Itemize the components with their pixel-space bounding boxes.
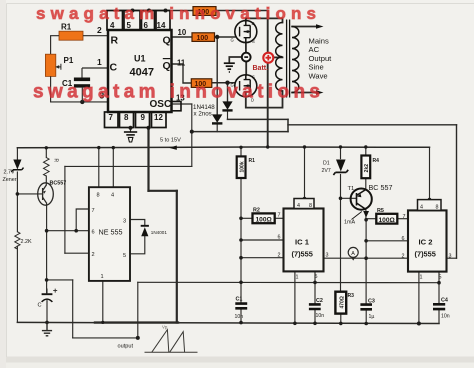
diode 1N4148 a	[212, 114, 222, 122]
svg-text:2.7V: 2.7V	[4, 170, 15, 176]
svg-text:NE 555: NE 555	[99, 228, 123, 237]
svg-text:1mA: 1mA	[344, 220, 355, 226]
svg-text:C: C	[110, 62, 118, 74]
svg-text:P1: P1	[64, 56, 74, 65]
capacitor C polarized	[42, 293, 53, 295]
svg-text:2: 2	[92, 252, 95, 258]
wire main rail 5to15V	[17, 146, 429, 149]
wire top supply bus from U1 pins 4,5,6,14 to 100ohm resistor	[115, 10, 193, 12]
svg-text:R3: R3	[348, 293, 355, 299]
wire transformer secondary bottom lead with arrow	[292, 92, 318, 94]
node dot bus pin5	[131, 9, 135, 13]
svg-text:D1: D1	[323, 161, 330, 167]
svg-text:S: S	[252, 75, 255, 80]
svg-text:3: 3	[449, 253, 452, 259]
wire P1 bottom to U1 pin3	[51, 76, 108, 102]
svg-text:10n: 10n	[316, 313, 325, 319]
transistor T1 BC557 circle	[351, 189, 372, 210]
wire diode D_a cathode down	[216, 123, 218, 131]
svg-text:5: 5	[123, 253, 126, 259]
wire 100ohm to gate of top mosfet	[215, 36, 235, 38]
wire IC1 riser pins 4,8	[304, 147, 306, 199]
svg-text:100Ω: 100Ω	[256, 217, 273, 224]
potentiometer P1 (orange)	[45, 54, 55, 76]
wire R1 100k bottom to node	[240, 178, 242, 282]
wire horizontal y166 to NE555 pin2 riser	[65, 165, 192, 167]
capacitor C1 bottom	[235, 304, 247, 309]
svg-text:A: A	[351, 251, 355, 257]
node dot rail NE555 pin8	[97, 146, 100, 149]
wire control line y282 to IC2 pin5	[138, 281, 439, 283]
node dot control line C2	[313, 281, 317, 285]
wire diode cathode line y131.6 to jog	[192, 131, 288, 133]
wire collector node to output drop	[47, 279, 73, 281]
svg-text:R2: R2	[253, 208, 260, 214]
svg-text:C1: C1	[236, 297, 243, 303]
current arrow 1mA	[363, 211, 369, 218]
transformer secondary winding	[292, 27, 299, 93]
svg-text:R1: R1	[61, 23, 72, 32]
arrow secondary top	[316, 24, 324, 28]
wire transformer secondary top lead with arrow	[292, 26, 318, 28]
node dot pin6 node	[239, 238, 243, 242]
node dot pin2 line crossing	[364, 256, 368, 260]
svg-text:2k2: 2k2	[364, 164, 370, 173]
node dot collector output branch	[45, 278, 49, 282]
svg-text:4: 4	[420, 204, 423, 210]
node dot BC557 collector pin6	[45, 229, 49, 233]
node dot output	[136, 336, 140, 340]
wire U1 pin11 Qbar to 100ohm	[172, 64, 192, 83]
svg-text:Zener: Zener	[3, 177, 17, 183]
wire C3 to ground bus	[365, 311, 367, 324]
wire node to IC1 pin2	[241, 257, 284, 259]
potentiometer P1 wiper arrow	[58, 64, 61, 70]
svg-text:S: S	[252, 39, 255, 44]
IC U1 4047 box	[108, 30, 172, 112]
wire R4 top from rail	[365, 147, 367, 156]
wire pin13 vertical down crossing rail	[191, 104, 193, 166]
svg-text:7: 7	[109, 113, 114, 122]
wire R zigzag top from rail	[45, 148, 47, 158]
wire R2 to IC1 pin7	[275, 217, 284, 219]
svg-text:6: 6	[92, 230, 95, 236]
wire node pin11 down to diode D_b anode	[227, 83, 229, 102]
svg-text:6: 6	[278, 235, 281, 241]
svg-text:7: 7	[403, 214, 406, 220]
svg-text:5: 5	[315, 274, 318, 280]
svg-text:8: 8	[436, 204, 439, 210]
wire NE555 pin3 to 1N4001	[130, 220, 145, 226]
wire battery plus to transformer center tap	[273, 56, 283, 58]
wire NE555 pin2 riser vertical	[64, 166, 66, 253]
wire capacitor C stem to ground bus	[46, 302, 48, 323]
svg-text:Wave: Wave	[309, 71, 328, 80]
ground under U1 pins 7,8	[124, 132, 137, 142]
wire zener to base node	[16, 172, 18, 232]
svg-text:IC 2: IC 2	[419, 238, 433, 247]
wire R1 left to P1 top	[51, 36, 59, 55]
svg-text:8: 8	[309, 203, 312, 209]
diode 1N4001	[141, 227, 148, 236]
svg-text:470Ω: 470Ω	[339, 296, 345, 308]
capacitor C2	[309, 304, 321, 309]
node dot C3 ground bus	[364, 322, 368, 326]
wire top bus from 100ohm to battery positive rail	[216, 10, 268, 12]
transistor BC557 left circle	[38, 183, 54, 205]
wire right side vertical down to IC2 pin3	[456, 125, 458, 258]
node dot rail IC1 riser	[303, 145, 306, 148]
wire NE555 pin6 to collector node	[47, 230, 89, 232]
meter A test point	[348, 247, 358, 257]
node dot NE555 pin7 bracket	[74, 229, 78, 233]
resistor R zigzag	[44, 158, 50, 177]
node dot pin13 line joins diode line	[190, 130, 194, 134]
node dot rail D1	[339, 145, 342, 148]
wire C4 to ground bus corner	[438, 311, 440, 324]
svg-text:100Ω: 100Ω	[379, 217, 396, 224]
capacitor C3	[360, 305, 372, 310]
svg-text:R: R	[111, 35, 119, 47]
wire R1 100k top from rail	[240, 147, 242, 156]
wire thick net from U1 pins 9,12 down	[147, 128, 149, 191]
svg-text:1: 1	[420, 275, 423, 281]
svg-text:8: 8	[97, 193, 100, 199]
wire NE555 pin7 bracket	[76, 209, 89, 231]
svg-text:4: 4	[111, 193, 114, 199]
zener diode D1 2V7	[336, 160, 346, 172]
wire IC2 pin5 down	[438, 272, 440, 283]
svg-text:Mains: Mains	[309, 37, 329, 46]
node dot capacitor C ground	[45, 321, 49, 325]
wire node to IC2 pin6	[366, 240, 408, 242]
svg-text:11: 11	[177, 59, 186, 68]
svg-text:R5: R5	[377, 208, 384, 214]
wire rail right drop to IC2 pins 4,8	[429, 147, 431, 199]
wire battery positive rail vertical	[267, 11, 269, 148]
svg-text:10: 10	[178, 28, 187, 37]
output waveform triangle ramps	[145, 330, 198, 353]
mosfet Q-top internals	[240, 21, 251, 43]
svg-text:(7)555: (7)555	[292, 250, 313, 259]
node dot zener base node	[16, 192, 20, 196]
svg-text:R4: R4	[373, 158, 380, 164]
svg-text:R1: R1	[249, 158, 256, 164]
wire thick net down to ground bus	[176, 191, 178, 323]
svg-text:10n: 10n	[235, 314, 244, 320]
capacitor C1 (thick plates)	[74, 78, 90, 82]
node dot C1 ground bus	[239, 321, 243, 325]
node dot R2 node	[239, 217, 243, 221]
mosfet Q-bottom internals	[240, 75, 251, 97]
wire output horizontal to output dot	[73, 337, 138, 339]
svg-text:R: R	[53, 159, 59, 163]
wire NE555 pin8 riser to rail	[98, 148, 100, 188]
wire node to R5	[366, 218, 376, 220]
wire thick net jog right	[149, 190, 177, 192]
node dot T1 base	[339, 197, 343, 201]
wire C1 top to pin1 line	[82, 68, 108, 102]
wire diode D_b cathode down	[227, 110, 229, 119]
wire U1 pin2 from R1	[83, 35, 108, 37]
svg-text:7: 7	[92, 208, 95, 214]
battery minus terminal	[242, 53, 251, 62]
wire node pin10 down to diode D_a anode	[216, 37, 218, 115]
svg-text:C3: C3	[368, 299, 375, 305]
svg-text:4: 4	[297, 203, 300, 209]
transistor T1 internals	[357, 190, 366, 210]
resistor 2.2K zigzag	[15, 232, 20, 249]
resistor R5 100ohm (white)	[376, 214, 397, 224]
svg-text:2.2K: 2.2K	[21, 239, 32, 245]
svg-text:G: G	[231, 38, 234, 43]
svg-text:8: 8	[124, 113, 129, 122]
svg-text:1: 1	[296, 275, 299, 281]
wire rail left drop / zener branch top	[16, 148, 18, 160]
svg-text:Sine: Sine	[309, 63, 324, 72]
svg-text:12: 12	[154, 113, 163, 122]
node dot U1 pins 7,8 ground	[128, 126, 132, 130]
wire battery minus to chassis ground	[229, 57, 243, 63]
wire output node up to control line	[137, 282, 139, 338]
svg-text:3: 3	[326, 253, 329, 259]
capacitor C4	[433, 304, 445, 309]
wire U1 pin10 Q to 100ohm	[172, 36, 193, 38]
wire top mosfet source to battery minus	[245, 43, 247, 54]
resistor R1 100k vertical (white)	[237, 156, 246, 178]
ground under capacitor C	[42, 322, 52, 335]
wire bottom mosfet drain to transformer primary bottom	[246, 91, 283, 108]
svg-text:BC557: BC557	[50, 181, 67, 187]
wire IC1 pin1 to ground bus	[294, 271, 296, 323]
node dot pin11 branch	[225, 81, 229, 85]
wire T1 base	[341, 197, 357, 199]
svg-text:output: output	[118, 344, 134, 350]
node dot IC1 top bracket	[303, 197, 307, 201]
IC1 top bracket pins 4,8	[294, 199, 314, 209]
svg-text:2: 2	[278, 252, 281, 258]
node dot rail R4	[364, 145, 367, 148]
wire top mosfet drain to transformer primary top	[246, 18, 283, 22]
node dot bus pin6	[147, 9, 151, 13]
svg-text:1: 1	[97, 57, 102, 67]
node dot rail battery rail	[266, 145, 269, 148]
wire R3 to ground bus	[340, 314, 342, 324]
node dot R3 ground bus	[339, 322, 343, 326]
supply arrow on rail	[169, 146, 177, 150]
wire jog vertical at x288	[287, 119, 289, 131]
svg-text:1N4001: 1N4001	[151, 230, 168, 235]
node dot pin10 branch	[215, 35, 219, 39]
wire NE555 pin2 horizontal	[65, 252, 89, 254]
wire base node to BC557 base	[17, 193, 42, 195]
wire R zigzag bottom to BC557 emitter	[45, 176, 47, 185]
node dot rail NE555 pin4	[112, 146, 115, 149]
wire NE555 pin1 to ground bus	[102, 281, 104, 323]
transformer core	[287, 20, 290, 98]
wire BC557 collector down	[46, 203, 48, 294]
zener diode 2.7V	[13, 160, 21, 170]
svg-text:T1: T1	[348, 186, 355, 192]
arrow secondary bottom	[316, 90, 324, 94]
IC2 555 box	[408, 210, 447, 271]
wire D1 top from rail	[340, 147, 342, 159]
node dot C1 bottom junction	[80, 100, 84, 104]
wire battery minus to bottom mosfet	[245, 61, 247, 75]
node dot U1 pins 9,12	[146, 126, 150, 130]
node dot C2 ground bus	[313, 322, 317, 326]
wire U1 pin13 OSC to right	[172, 103, 192, 105]
resistor 100 ohm Qbar line (orange)	[191, 79, 212, 88]
wire R4 bottom to T1 emitter	[365, 178, 367, 189]
wire ground bus	[17, 322, 439, 323]
svg-text:AC: AC	[309, 45, 320, 54]
resistor 100 ohm Q line (orange)	[192, 33, 215, 42]
svg-text:IC 1: IC 1	[295, 238, 310, 247]
node dot IC1 pin1 ground bus	[293, 322, 297, 326]
node dot NE555 pin1 ground	[101, 321, 104, 324]
svg-text:C4: C4	[441, 298, 448, 304]
wire into IC2 pin3	[447, 257, 457, 259]
U1 top pin stub boxes 4,5,6,14	[107, 11, 170, 31]
wire collector node down to C3	[365, 220, 367, 303]
svg-text:(7)555: (7)555	[415, 250, 436, 259]
wire 100ohm to gate of bottom mosfet	[212, 82, 235, 84]
wire ground stem U1	[130, 128, 132, 132]
svg-text:2: 2	[402, 253, 405, 259]
svg-text:1: 1	[101, 274, 104, 280]
diode 1N4148 b	[222, 101, 232, 109]
ground chassis near battery	[224, 63, 235, 72]
mosfet Q-bottom circle	[235, 75, 257, 97]
svg-text:Q: Q	[163, 35, 171, 47]
wire output vertical	[72, 280, 74, 338]
svg-text:100k: 100k	[240, 161, 246, 172]
mosfet Q-top circle	[235, 21, 257, 43]
svg-text:1µ: 1µ	[369, 314, 375, 320]
transistor BC557 left internals	[43, 185, 47, 203]
svg-text:100: 100	[197, 35, 209, 42]
wire IC2 pin5 node down through C4	[438, 283, 440, 303]
svg-text:Batt.: Batt.	[253, 65, 269, 72]
resistor R4 2k2 vertical (white)	[361, 156, 370, 179]
wire T1 base node down to R3	[340, 198, 342, 291]
wire R5 to IC2 pin7	[397, 218, 408, 220]
wire 2.2K lower to ground bus	[16, 246, 18, 322]
battery plus terminal (red)	[263, 53, 273, 63]
wire ground bus thick overlay	[95, 321, 178, 323]
svg-text:Output: Output	[309, 54, 333, 63]
wire long line to right side	[288, 124, 457, 126]
wire IC2 pin1 to ground bus	[418, 272, 420, 324]
node dot T1 collector R5	[364, 218, 368, 222]
svg-text:C: C	[38, 303, 42, 309]
node dot control line C1	[239, 281, 243, 285]
node dot rail R1 100k	[239, 146, 242, 149]
svg-text:2: 2	[97, 25, 102, 35]
wire node to R2	[241, 217, 253, 219]
wire D1 to T1 base node	[340, 175, 342, 199]
U1 bottom pin stub boxes 7,8,9,12	[105, 112, 167, 128]
wire C1 stem from control line	[240, 282, 242, 303]
svg-text:BC 557: BC 557	[369, 183, 393, 192]
resistor 100 ohm top (orange)	[193, 7, 216, 16]
wire diode cathode line y119.4 to jog	[228, 118, 289, 120]
node dot pin2 node	[239, 256, 243, 260]
transformer primary winding	[276, 23, 283, 92]
svg-text:6: 6	[402, 236, 405, 242]
svg-text:2V7: 2V7	[322, 168, 331, 174]
wire NE555 pin4 riser to rail	[112, 148, 114, 188]
svg-text:7: 7	[278, 213, 281, 219]
wire 1N4001 bottom to pin5	[130, 236, 145, 253]
svg-text:x 2nos: x 2nos	[194, 111, 212, 118]
IC NE555 box	[89, 187, 130, 281]
wire IC1 pin3 to IC2 pin2	[324, 257, 409, 259]
svg-text:10n: 10n	[441, 314, 450, 320]
svg-text:4047: 4047	[130, 67, 154, 79]
wire T1 collector down	[365, 209, 367, 219]
node dot rail R zigzag	[45, 146, 48, 149]
resistor R3 470ohm vertical (white)	[335, 292, 346, 314]
svg-text:Vp: Vp	[162, 325, 168, 330]
node dot IC2 pin1 ground bus	[417, 322, 421, 326]
svg-text:U1: U1	[134, 54, 146, 64]
node dot IC2 top bracket	[428, 198, 432, 202]
wire node to IC1 pin6	[241, 239, 284, 241]
wire IC1 pin5 down through C2	[314, 271, 316, 303]
svg-text:5: 5	[439, 275, 442, 281]
svg-text:Q: Q	[163, 60, 171, 72]
node dot bus pin14	[164, 9, 168, 13]
resistor R1 top-left (orange)	[59, 31, 83, 40]
node dot pin6 line IC2	[364, 239, 368, 243]
wire C2 to ground bus	[314, 310, 316, 323]
svg-text:9: 9	[141, 113, 146, 122]
U1 pin13 stub	[172, 102, 182, 111]
svg-text:C2: C2	[316, 298, 323, 304]
IC2 top bracket pins 4,8	[418, 200, 442, 211]
svg-text:5 to 15V: 5 to 15V	[160, 138, 181, 144]
wire C1 to ground bus	[240, 308, 242, 322]
svg-text:3: 3	[123, 219, 126, 225]
node dot control line IC2 pin5	[437, 281, 441, 285]
resistor R2 100ohm (white)	[253, 213, 275, 223]
IC1 555 box	[284, 209, 324, 272]
